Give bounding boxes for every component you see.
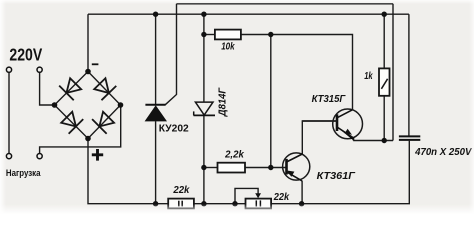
svg-text:Д814Г: Д814Г: [218, 87, 229, 117]
svg-text:22k: 22k: [273, 192, 290, 203]
svg-text:КТ315Г: КТ315Г: [312, 94, 346, 105]
svg-text:22k: 22k: [172, 185, 190, 196]
svg-text:220V: 220V: [9, 44, 42, 64]
svg-text:КУ202: КУ202: [159, 123, 189, 134]
svg-text:1k: 1k: [364, 71, 373, 82]
svg-text:КТ361Г: КТ361Г: [317, 171, 356, 182]
svg-text:10k: 10k: [221, 41, 235, 52]
svg-text:470n X 250V: 470n X 250V: [414, 147, 472, 158]
svg-text:Нагрузка: Нагрузка: [6, 168, 41, 178]
svg-text:2,2k: 2,2k: [224, 149, 245, 160]
